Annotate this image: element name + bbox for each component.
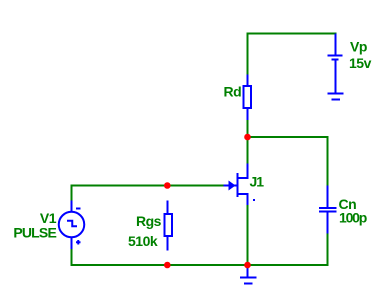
svg-text:Vp: Vp	[350, 39, 367, 55]
svg-text:J1: J1	[250, 174, 265, 190]
svg-text:510k: 510k	[128, 233, 158, 249]
svg-text:100p: 100p	[339, 210, 367, 226]
svg-text:Rd: Rd	[224, 84, 242, 100]
svg-text:Rgs: Rgs	[136, 213, 162, 229]
svg-text:15v: 15v	[349, 55, 372, 71]
svg-text:PULSE: PULSE	[13, 225, 56, 241]
